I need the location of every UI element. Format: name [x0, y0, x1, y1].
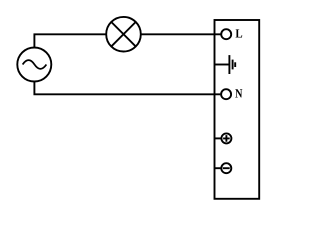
enclosure box U1: [215, 20, 260, 199]
wire: lamp to terminal L: [141, 33, 221, 35]
ground: [215, 55, 236, 74]
terminal N: [221, 89, 231, 99]
wire bottom: AC source to terminal N: [34, 81, 220, 94]
label N: [235, 89, 242, 97]
terminal +: [215, 133, 232, 143]
AC source V1: [17, 48, 51, 82]
terminal L: [221, 29, 231, 39]
lamp X1: [106, 17, 141, 52]
label L: [236, 29, 243, 37]
wire top: AC source to lamp: [34, 34, 106, 48]
terminal -: [215, 163, 232, 173]
